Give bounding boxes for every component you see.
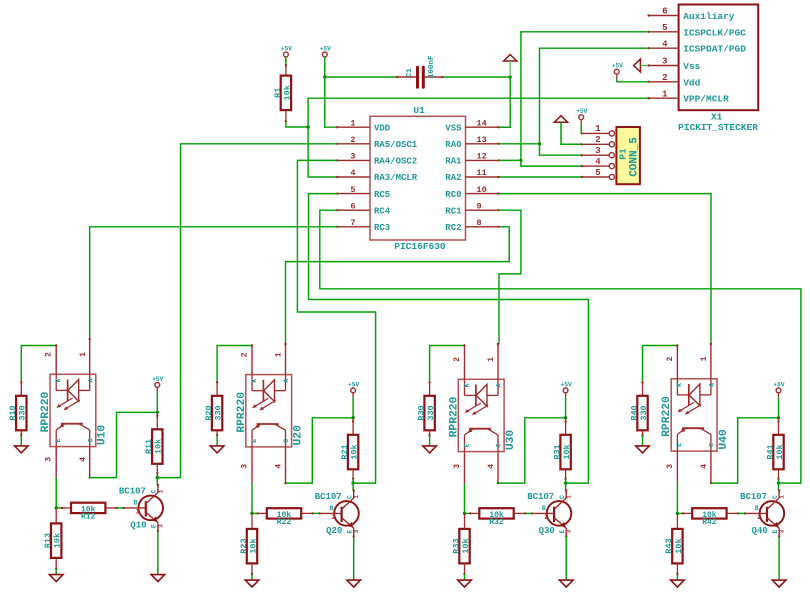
wire +5V to P1 pin1 — [580, 124, 582, 133]
svg-text:330: 330 — [214, 405, 224, 420]
svg-text:R42: R42 — [702, 518, 717, 527]
resistor R23 10k (pull-down) — [251, 513, 253, 529]
svg-text:R41: R41 — [765, 444, 775, 459]
wire opto emitter down to base node — [55, 478, 57, 508]
svg-text:330: 330 — [426, 405, 436, 420]
junction +5V/R — [777, 416, 780, 419]
svg-text:6: 6 — [662, 7, 667, 17]
junction +5V/R — [564, 416, 567, 419]
svg-text:RC5: RC5 — [374, 190, 390, 200]
svg-text:3: 3 — [779, 529, 786, 533]
ground (Q10 emitter) — [151, 575, 165, 582]
svg-text:A: A — [709, 383, 716, 387]
svg-text:5: 5 — [662, 23, 667, 33]
resistor R12 10k (base) — [56, 507, 62, 509]
svg-text:K: K — [463, 383, 470, 387]
+5V channel3 — [561, 381, 572, 397]
wire VPP/MCLR long net — [308, 98, 648, 177]
U1 pin 8 RC2 — [445, 218, 500, 233]
svg-text:1: 1 — [275, 352, 284, 357]
svg-text:Vss: Vss — [683, 61, 700, 72]
svg-text:RA4/OSC2: RA4/OSC2 — [374, 157, 417, 167]
svg-text:7: 7 — [350, 218, 355, 228]
svg-text:Q20: Q20 — [326, 526, 342, 536]
wire to ground — [20, 435, 22, 446]
wire emitter to ground — [157, 531, 159, 575]
transistor Q30 BC107 — [527, 489, 573, 537]
wire opto emitter down to base node — [676, 483, 678, 513]
svg-text:B: B — [755, 505, 759, 512]
svg-text:A: A — [496, 383, 503, 387]
X1 pin 4 stub — [647, 39, 678, 49]
resistor R40 — [629, 396, 649, 431]
wire RC0 to channel4 LED — [499, 194, 711, 344]
svg-text:BC107: BC107 — [315, 492, 342, 502]
svg-text:1: 1 — [487, 357, 496, 362]
resistor R22 10k (base) — [252, 512, 258, 514]
U1 pin 13 RA0 — [445, 135, 500, 150]
wire to ground — [676, 574, 678, 580]
resistor R31 — [552, 435, 572, 470]
junction +5V/R — [351, 416, 354, 419]
wire VSS vertical — [509, 61, 511, 77]
svg-text:10k: 10k — [562, 444, 572, 459]
junction C1/VSS — [509, 75, 512, 78]
resistor R40 330 (LED series) — [641, 381, 643, 383]
ground (R23) — [245, 580, 259, 587]
svg-text:ICSPDAT/PGD: ICSPDAT/PGD — [683, 44, 746, 55]
junction R/collector/input — [351, 481, 354, 484]
svg-text:+5V: +5V — [281, 46, 292, 53]
resistor R43 10k (pull-down) — [676, 513, 678, 529]
junction RA0/ICSPDAT — [538, 142, 541, 145]
U1 pin 5 RC5 — [336, 185, 390, 200]
wire VSS to C1 node — [499, 126, 511, 128]
svg-text:3: 3 — [350, 152, 355, 162]
wire junction to collector — [156, 478, 158, 485]
svg-text:BC107: BC107 — [740, 492, 767, 502]
wire to ground — [429, 435, 431, 446]
svg-text:3: 3 — [662, 57, 667, 67]
wire base link — [313, 512, 320, 514]
svg-text:E: E — [251, 439, 258, 443]
svg-text:PIC16F630: PIC16F630 — [394, 241, 446, 252]
svg-text:+5V: +5V — [320, 46, 331, 53]
wire base link — [117, 507, 124, 509]
resistor R43 — [664, 529, 684, 564]
wire junction to collector — [565, 483, 567, 490]
svg-text:2: 2 — [332, 514, 336, 521]
transistor Q40 BC107 — [740, 489, 786, 537]
svg-text:10k: 10k — [248, 538, 258, 553]
optocoupler U10 RPR220 — [40, 338, 109, 479]
transistor Q20 BC107 — [315, 489, 361, 537]
wire emitter to ground — [778, 537, 780, 581]
junction base node — [55, 506, 58, 509]
U1 pin 9 RC1 — [445, 201, 500, 216]
capacitor C1 100nF — [396, 55, 444, 87]
svg-text:3: 3 — [157, 524, 164, 528]
resistor R41 10k (collector) — [778, 418, 780, 435]
svg-text:RC3: RC3 — [374, 223, 390, 233]
svg-text:3: 3 — [240, 464, 249, 469]
svg-text:10: 10 — [477, 185, 487, 195]
svg-text:3: 3 — [353, 529, 360, 533]
svg-text:1: 1 — [157, 489, 164, 493]
svg-text:+5V: +5V — [561, 381, 572, 388]
svg-text:13: 13 — [477, 135, 487, 145]
connector X1 PICKIT_STECKER box — [678, 5, 758, 134]
svg-text:E: E — [55, 438, 62, 442]
resistor R20 — [204, 396, 224, 431]
svg-text:BC107: BC107 — [527, 492, 554, 502]
wire RC5 to channel3 R31 node — [309, 194, 589, 484]
optocoupler U30 RPR220 — [448, 343, 517, 485]
+5V symbol at R1 — [281, 46, 292, 62]
svg-text:R33: R33 — [451, 538, 461, 553]
svg-text:R20: R20 — [204, 405, 214, 420]
resistor R30 330 (LED series) — [428, 381, 430, 383]
resistor R42 10k (base) — [677, 512, 683, 514]
svg-text:U40: U40 — [718, 429, 730, 450]
svg-text:U30: U30 — [505, 430, 517, 451]
svg-text:+5V: +5V — [348, 381, 359, 388]
svg-text:VPP/MCLR: VPP/MCLR — [683, 94, 729, 105]
resistor R13 10k (pull-down) — [55, 508, 57, 524]
svg-text:2: 2 — [662, 73, 667, 83]
ground (Q30 emitter) — [559, 580, 573, 587]
wire R bottom to junction — [156, 473, 158, 477]
svg-text:RA3/MCLR: RA3/MCLR — [374, 173, 418, 183]
svg-text:RC4: RC4 — [374, 206, 391, 216]
svg-text:Auxiliary: Auxiliary — [683, 11, 735, 22]
wire RA4/OSC2 to channel2 R21 node — [297, 160, 375, 483]
svg-text:+5V: +5V — [773, 381, 784, 388]
svg-text:Q30: Q30 — [539, 526, 555, 536]
wire RA5/OSC1 to channel1 R11 node — [157, 144, 337, 478]
svg-text:RPR220: RPR220 — [448, 396, 460, 437]
svg-text:2: 2 — [240, 352, 249, 357]
ground (Q20 emitter) — [347, 580, 361, 587]
svg-text:R21: R21 — [340, 444, 350, 459]
svg-text:A: A — [283, 379, 290, 383]
wire ICSPCLK/PGC net (X1 pin5 - RA1 - P1 pin4) — [521, 32, 649, 166]
resistor R10 — [8, 396, 28, 431]
svg-text:Vdd: Vdd — [683, 77, 700, 88]
svg-text:4: 4 — [487, 464, 496, 469]
resistor R41 — [765, 435, 785, 470]
svg-text:C: C — [87, 438, 94, 442]
resistor R13 — [43, 523, 63, 558]
junction R/collector/input — [564, 481, 567, 484]
wire +5V down / staircase to opto C — [352, 397, 354, 417]
svg-text:2: 2 — [666, 356, 675, 361]
svg-text:1: 1 — [350, 118, 355, 128]
wire emitter to ground — [353, 537, 355, 581]
X1 pin 3 stub — [647, 57, 678, 67]
U1 pin 1 VDD — [336, 118, 391, 133]
svg-text:RC0: RC0 — [445, 190, 461, 200]
+5V channel1 — [152, 376, 163, 392]
resistor R20 330 (LED series) — [216, 381, 218, 383]
U1 pin 2 RA5/OSC1 — [336, 135, 418, 150]
wire +5V down / staircase to opto C — [156, 392, 158, 412]
resistor R1 10k — [273, 64, 293, 123]
wire ICSPDAT/PGD net (X1 pin4 - RA0 - P1 pin3) — [540, 48, 649, 155]
wire RC3 to channel1 LED — [90, 227, 338, 339]
svg-text:3: 3 — [566, 529, 573, 533]
IC U1 PIC16F630 box — [370, 105, 466, 252]
wire base link — [738, 512, 745, 514]
svg-text:U20: U20 — [292, 425, 304, 446]
supply arrow VSS — [504, 55, 517, 62]
svg-text:CONN_5: CONN_5 — [628, 137, 640, 177]
U1 pin 4 RA3/MCLR — [336, 168, 418, 183]
U1 pin 14 VSS — [445, 118, 500, 133]
svg-text:R12: R12 — [81, 512, 96, 521]
+5V channel2 — [348, 381, 359, 397]
U1 pin 11 RA2 — [445, 168, 500, 183]
svg-text:2: 2 — [453, 357, 462, 362]
svg-text:E: E — [676, 443, 683, 447]
resistor R23 — [239, 529, 259, 564]
wire RC1 to channel3 LED — [499, 210, 521, 344]
wire opto emitter down to base node — [464, 483, 466, 513]
svg-text:10k: 10k — [775, 444, 785, 459]
svg-text:4: 4 — [79, 457, 88, 462]
svg-text:C1: C1 — [406, 68, 414, 78]
wire channel4 top (LED cathode to R) — [643, 346, 678, 383]
+5V symbol at VDD — [320, 46, 331, 62]
svg-text:BC107: BC107 — [119, 486, 146, 496]
svg-text:1: 1 — [779, 495, 786, 499]
+5V channel4 — [773, 381, 784, 397]
wire to ground — [642, 435, 644, 446]
P1 pin 3 — [580, 146, 614, 158]
svg-text:1: 1 — [700, 356, 709, 361]
svg-text:2: 2 — [45, 352, 54, 357]
resistor R32 10k (base) — [465, 512, 471, 514]
svg-text:K: K — [676, 383, 683, 387]
svg-text:RA1: RA1 — [445, 157, 462, 167]
svg-text:1: 1 — [566, 495, 573, 499]
X1 pin 1 stub — [647, 89, 678, 99]
optocoupler U40 RPR220 — [661, 343, 730, 485]
resistor R11 — [144, 429, 164, 464]
svg-text:RA5/OSC1: RA5/OSC1 — [374, 140, 418, 150]
transistor Q10 BC107 — [119, 484, 164, 532]
ground (R10) — [15, 446, 29, 453]
wire R1 bottom to VPP node — [286, 121, 308, 127]
X1 pin 6 stub — [647, 7, 678, 17]
wire +5V down / staircase to opto C — [778, 397, 780, 417]
resistor R12 — [71, 503, 105, 522]
junction +5V/R — [156, 411, 159, 414]
P1 pin 4 — [580, 157, 614, 169]
wire RA1 to ICSPCLK junction — [499, 159, 521, 161]
wire channel1 top (LED cathode to R) — [21, 346, 56, 383]
svg-text:14: 14 — [477, 118, 487, 128]
svg-text:B: B — [329, 505, 333, 512]
svg-text:VSS: VSS — [445, 123, 462, 133]
svg-text:PICKIT_STECKER: PICKIT_STECKER — [678, 122, 758, 133]
svg-text:RPR220: RPR220 — [661, 396, 673, 437]
svg-text:U10: U10 — [97, 425, 109, 446]
svg-text:+5V: +5V — [576, 108, 587, 115]
svg-text:4: 4 — [700, 464, 709, 469]
svg-text:E: E — [463, 443, 470, 447]
wire R bottom to junction — [352, 479, 354, 483]
resistor R33 10k (pull-down) — [464, 513, 466, 529]
svg-text:+5V: +5V — [612, 63, 623, 70]
svg-text:RC2: RC2 — [445, 223, 461, 233]
svg-text:1: 1 — [353, 495, 360, 499]
svg-text:5: 5 — [595, 168, 600, 178]
wire base link — [525, 512, 532, 514]
svg-text:RC1: RC1 — [445, 206, 462, 216]
wire emitter to ground — [565, 537, 567, 581]
resistor R42 — [692, 508, 726, 527]
ground (Q40 emitter) — [772, 580, 786, 587]
svg-text:R13: R13 — [43, 533, 53, 548]
wire RC2 to channel2 LED — [286, 227, 510, 344]
connector P1 CONN_5 — [616, 127, 640, 184]
X1 pin 2 stub — [647, 73, 678, 83]
svg-text:R10: R10 — [8, 405, 18, 420]
svg-text:C: C — [496, 443, 503, 447]
junction base node — [250, 512, 253, 515]
svg-text:10k: 10k — [53, 533, 63, 548]
resistor R21 10k (collector) — [352, 418, 354, 435]
svg-text:P1: P1 — [618, 148, 629, 160]
wire junction to collector — [352, 483, 354, 490]
wire Vss stub — [640, 65, 648, 67]
svg-text:R40: R40 — [629, 405, 639, 420]
svg-text:R30: R30 — [416, 405, 426, 420]
wire +5V to X1 pin2 — [617, 79, 649, 82]
svg-text:1: 1 — [79, 352, 88, 357]
+5V at P1 pin1 — [576, 108, 587, 124]
P1 pin 2 — [580, 135, 614, 147]
junction R/collector/input — [156, 476, 159, 479]
wire channel3 top (LED cathode to R) — [430, 346, 465, 383]
svg-text:A: A — [87, 378, 94, 382]
svg-text:4: 4 — [350, 168, 355, 178]
wire supply to P1 pin2 — [561, 122, 582, 144]
wire junction to collector — [778, 483, 780, 490]
svg-text:R11: R11 — [144, 439, 154, 454]
svg-text:2: 2 — [136, 509, 140, 516]
ground (R33) — [458, 580, 472, 587]
optocoupler U20 RPR220 — [236, 343, 305, 485]
svg-text:3: 3 — [666, 464, 675, 469]
wire +5V to VDD pin 1 — [325, 57, 338, 127]
ground (R20) — [210, 446, 224, 453]
svg-text:C: C — [709, 443, 716, 447]
U1 pin 10 RC0 — [445, 185, 500, 200]
svg-text:8: 8 — [477, 218, 482, 228]
wire +5V down / staircase to opto C — [565, 397, 567, 417]
svg-text:100nF: 100nF — [428, 55, 436, 78]
svg-text:Q10: Q10 — [130, 521, 146, 531]
wire RC4 to channel4 R41 node — [320, 210, 801, 483]
svg-text:X1: X1 — [711, 112, 723, 123]
svg-text:R31: R31 — [552, 444, 562, 459]
svg-text:R43: R43 — [664, 538, 674, 553]
junction RA1/ICSPCLK — [519, 159, 522, 162]
wire — [285, 57, 287, 65]
supply arrow P1 pin2 — [554, 116, 567, 123]
svg-text:B: B — [134, 500, 138, 507]
svg-text:4: 4 — [275, 464, 284, 469]
svg-text:330: 330 — [18, 405, 28, 420]
svg-text:10k: 10k — [283, 85, 293, 100]
svg-text:1: 1 — [662, 89, 668, 99]
svg-text:VDD: VDD — [374, 123, 391, 133]
junction R/collector/input — [777, 481, 780, 484]
ground (R30) — [423, 446, 437, 453]
P1 pin 1 — [580, 124, 614, 136]
wire RA0 to ICSPDAT junction — [499, 143, 540, 145]
+5V at X1 Vdd — [612, 63, 623, 79]
svg-text:2: 2 — [544, 514, 548, 521]
resistor R33 — [451, 529, 471, 564]
resistor R31 10k (collector) — [565, 418, 567, 435]
ground (R43) — [671, 580, 685, 587]
svg-text:12: 12 — [477, 152, 487, 162]
wire opto emitter down to base node — [251, 483, 253, 513]
junction base node — [463, 512, 466, 515]
svg-text:U1: U1 — [413, 105, 425, 116]
resistor R30 — [416, 396, 436, 431]
svg-text:10k: 10k — [674, 538, 684, 553]
ground (R13) — [49, 575, 63, 582]
svg-text:6: 6 — [350, 201, 355, 211]
svg-text:B: B — [542, 505, 546, 512]
X1 pin 5 stub — [647, 23, 678, 33]
resistor R10 330 (LED series) — [20, 381, 22, 383]
U1 pin 3 RA4/OSC2 — [336, 152, 417, 167]
svg-text:Q40: Q40 — [752, 526, 768, 536]
svg-text:RPR220: RPR220 — [236, 392, 248, 433]
wire R bottom to junction — [778, 479, 780, 483]
U1 pin 7 RC3 — [336, 218, 390, 233]
svg-text:3: 3 — [453, 464, 462, 469]
wire to ground — [251, 574, 253, 580]
svg-text:R22: R22 — [277, 518, 292, 527]
svg-text:5: 5 — [350, 185, 355, 195]
svg-text:ICSPCLK/PGC: ICSPCLK/PGC — [683, 27, 746, 38]
U1 pin 12 RA1 — [445, 152, 500, 167]
resistor R32 — [479, 508, 513, 527]
ground (R40) — [636, 446, 650, 453]
svg-text:10k: 10k — [154, 439, 164, 454]
svg-text:2: 2 — [350, 135, 355, 145]
wire to ground — [55, 569, 57, 575]
svg-text:4: 4 — [662, 39, 668, 49]
svg-text:3: 3 — [595, 146, 600, 156]
wire RA2 to P1 pin5 — [499, 176, 582, 178]
svg-text:2: 2 — [595, 135, 600, 145]
resistor R21 — [340, 435, 360, 470]
resistor R22 — [267, 508, 301, 527]
U1 pin 6 RC4 — [336, 201, 391, 216]
svg-text:11: 11 — [477, 168, 487, 178]
wire +5V junction to C1 left — [325, 76, 398, 78]
wire channel2 top (LED cathode to R) — [217, 346, 252, 383]
svg-text:C: C — [283, 439, 290, 443]
svg-text:330: 330 — [639, 405, 649, 420]
